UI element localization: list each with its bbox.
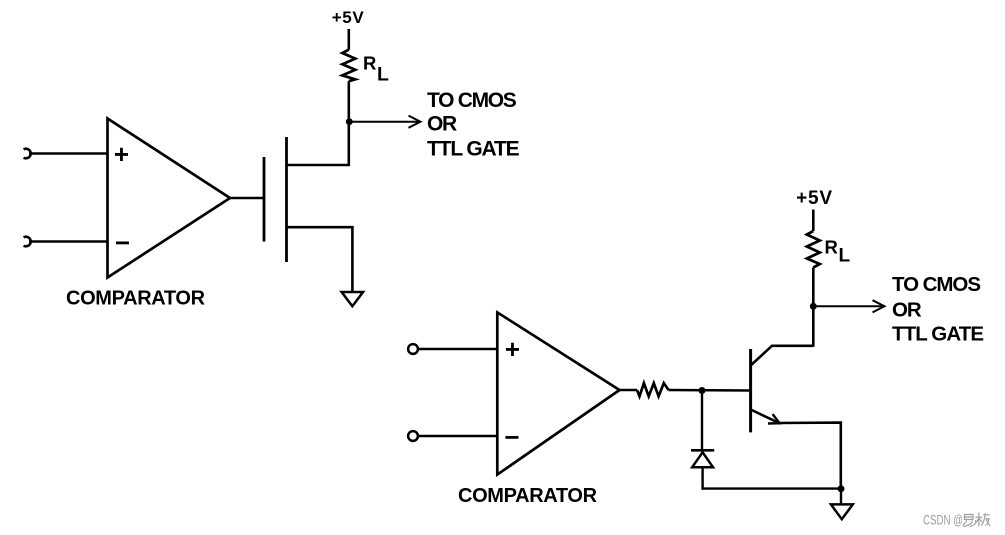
svg-text:COMPARATOR: COMPARATOR xyxy=(458,485,598,507)
node: base/diode junction xyxy=(699,387,706,394)
wire: source to ground xyxy=(287,227,353,291)
svg-text:+5V: +5V xyxy=(796,188,833,209)
svg-text:TTL GATE: TTL GATE xyxy=(892,322,983,345)
node: left output junction xyxy=(346,118,353,125)
svg-text:COMPARATOR: COMPARATOR xyxy=(66,288,206,310)
wire: stem to ground xyxy=(840,489,842,504)
wire: +5V to resistor xyxy=(347,29,350,50)
wire: bottom input to comparator xyxy=(29,240,108,243)
resistor RL (left) xyxy=(342,50,355,81)
易 xyxy=(963,515,976,527)
svg-text:−: − xyxy=(504,422,519,452)
ground (left) xyxy=(342,292,364,306)
svg-text:OR: OR xyxy=(427,113,457,136)
svg-text:+: + xyxy=(114,139,129,169)
板 xyxy=(976,513,990,526)
svg-text:TO CMOS: TO CMOS xyxy=(892,273,980,296)
node: right output junction xyxy=(810,303,817,310)
svg-text:L: L xyxy=(377,63,389,85)
ground (right) xyxy=(831,504,853,519)
wire: drain to output node vertical xyxy=(287,164,350,167)
transistor Q1: MOSFET gate bar xyxy=(263,157,266,242)
wire: resistor to base xyxy=(669,389,750,392)
input terminal top-left xyxy=(24,149,31,159)
node: emitter/ground junction xyxy=(838,485,845,492)
wire: +5V to resistor (right) xyxy=(812,210,815,232)
input terminal top (right comparator) xyxy=(408,344,418,354)
transistor Q2: emitter with arrow xyxy=(751,410,841,489)
input terminal bottom (right comparator) xyxy=(408,431,418,441)
svg-text:CSDN @: CSDN @ xyxy=(923,512,963,528)
transistor Q2: collector xyxy=(751,346,814,366)
wire: resistor to node to collector corner xyxy=(812,268,815,347)
wire: diode to bottom rail xyxy=(701,467,703,490)
svg-text:L: L xyxy=(839,246,851,267)
op-amp U2: comparator (right) xyxy=(497,312,619,474)
transistor Q1: MOSFET channel bar xyxy=(285,137,288,262)
diode D1 cathode bar xyxy=(691,449,714,452)
svg-text:TO CMOS: TO CMOS xyxy=(427,89,517,112)
wire: bottom rail xyxy=(702,487,842,489)
watermark: CSDN @易板 xyxy=(923,512,990,528)
wire: output arrow (left) xyxy=(352,121,419,123)
wire: comparator output to base resistor xyxy=(620,389,638,392)
wire: top input to comparator xyxy=(29,152,108,155)
wire: output arrow (right) xyxy=(816,305,883,307)
wire: node down to diode xyxy=(701,391,703,451)
wire: top input to comparator (right) xyxy=(418,348,497,350)
wire: comparator output to gate xyxy=(230,197,264,200)
svg-text:R: R xyxy=(825,237,838,258)
svg-text:+5V: +5V xyxy=(332,8,365,27)
svg-text:R: R xyxy=(363,52,376,73)
op-amp U1: comparator (left) xyxy=(108,119,231,278)
svg-text:TTL GATE: TTL GATE xyxy=(427,138,520,161)
svg-text:+: + xyxy=(505,334,520,364)
input terminal bottom-left xyxy=(24,237,31,247)
transistor Q2: NPN base bar xyxy=(749,349,752,432)
diode D1 triangle xyxy=(692,452,713,467)
resistor RL (right) xyxy=(807,231,820,268)
resistor R1 (base, horizontal zigzag) xyxy=(637,383,669,396)
svg-text:OR: OR xyxy=(892,299,922,322)
svg-text:−: − xyxy=(115,228,130,258)
wire: bottom input to comparator (right) xyxy=(418,435,497,437)
wire: resistor to node and down to drain xyxy=(347,81,350,166)
